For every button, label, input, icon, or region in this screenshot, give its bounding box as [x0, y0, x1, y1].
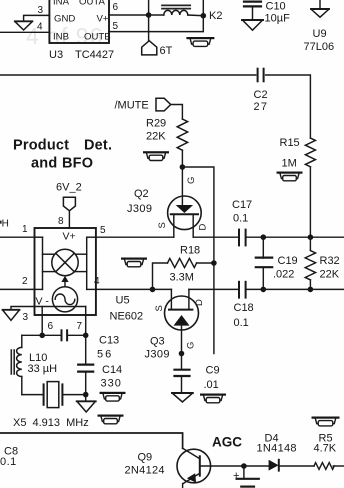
svg-text:8: 8: [58, 216, 64, 227]
svg-text:4: 4: [94, 276, 100, 287]
wire pin2 left edge: [0, 288, 35, 290]
speaker icon (below 22K): [143, 151, 169, 160]
wire Q9 base to right: [200, 465, 269, 467]
node C19 bottom: [261, 287, 267, 293]
svg-text:Q2: Q2: [134, 188, 149, 200]
svg-text:TC4427: TC4427: [75, 49, 114, 61]
node junction (K2 coil right): [201, 13, 207, 19]
node AGC cap: [241, 463, 247, 469]
svg-text:Q3: Q3: [150, 336, 165, 348]
svg-text:C2: C2: [254, 89, 268, 101]
svg-text:4: 4: [37, 22, 43, 33]
wire top rail: [0, 74, 256, 76]
wire pin6 stub: [41, 315, 43, 335]
svg-text:10µF: 10µF: [265, 13, 291, 25]
arrow oscillator to mixer: [61, 276, 68, 287]
svg-text:6: 6: [113, 2, 119, 13]
node junction (V+ / K2 coil left): [146, 12, 152, 18]
svg-text:1N4148: 1N4148: [257, 443, 297, 455]
svg-text:V+: V+: [63, 231, 76, 243]
svg-text:V -: V -: [36, 296, 50, 308]
node R18 right: [211, 260, 217, 266]
svg-text:5: 5: [113, 21, 119, 32]
resistor R18: [153, 258, 214, 289]
svg-text:OUTA: OUTA: [79, 0, 106, 8]
speaker icon (right of X5 label): [98, 415, 124, 424]
flag /MUTE: [156, 98, 171, 111]
svg-text:/MUTE: /MUTE: [115, 100, 149, 112]
svg-text:and: and: [31, 156, 57, 172]
svg-text:6T: 6T: [160, 45, 173, 57]
svg-text:S: S: [157, 222, 168, 228]
svg-text:56: 56: [97, 349, 113, 361]
svg-text:X5 4.913 MHz: X5 4.913 MHz: [13, 417, 89, 429]
svg-text:G: G: [186, 342, 197, 349]
node pin7: [83, 333, 89, 339]
svg-text:J309: J309: [145, 349, 170, 361]
wire pin3 GND: [24, 15, 50, 21]
wire pin5 OUTB: [109, 16, 203, 32]
wire pin6 V+: [109, 14, 149, 16]
svg-text:D: D: [198, 224, 209, 231]
node pin6: [39, 333, 45, 339]
node Q3 gate: [179, 351, 185, 357]
svg-text:J309: J309: [127, 203, 152, 215]
node R18 left: [150, 287, 156, 293]
wire bottom bus right: [67, 334, 86, 336]
mixer symbol: [52, 249, 78, 275]
svg-text:U5: U5: [116, 295, 130, 307]
svg-text:G: G: [186, 177, 197, 184]
svg-text:K2: K2: [209, 10, 222, 22]
IC U3 TC4427 box: [49, 0, 109, 43]
wire MUTE to R29: [171, 105, 183, 120]
ground (below C14): [77, 401, 96, 412]
internal bus pin5/pin4 (right): [75, 237, 96, 289]
svg-text:H: H: [2, 219, 9, 230]
wire R15 bottom to C17 node: [309, 167, 311, 237]
svg-text:U3: U3: [49, 49, 63, 61]
capacitor C9: [175, 354, 190, 393]
node C19 top: [261, 234, 267, 240]
capacitor C17: [239, 230, 246, 246]
wire bottom bus left: [22, 334, 62, 336]
wire gate bus jog right: [182, 167, 214, 354]
svg-text:C14: C14: [102, 364, 122, 376]
flag 6T: [142, 41, 157, 55]
svg-text:.01: .01: [204, 379, 219, 391]
svg-text:INA: INA: [53, 0, 70, 8]
wire C17 to right edge: [246, 236, 344, 238]
capacitor C2: [258, 69, 264, 82]
svg-text:27: 27: [254, 101, 269, 113]
svg-text:C19: C19: [278, 255, 298, 267]
wire pin4 INB to left edge: [0, 31, 49, 33]
svg-text:330: 330: [101, 378, 122, 390]
flag 6V_2: [63, 197, 75, 211]
wire pin7 stub: [85, 315, 87, 335]
svg-text:0.1: 0.1: [0, 456, 17, 468]
wire rail right of C2: [266, 75, 311, 138]
wire Q2 drain to C17: [193, 236, 239, 238]
speaker icon (right of C9): [200, 394, 226, 403]
transistor Q2 J309: [168, 196, 202, 237]
svg-text:0.1: 0.1: [234, 317, 249, 329]
wire L10 to X5: [22, 394, 44, 396]
wire NE602 pin4 to Q3 source: [96, 288, 171, 290]
ground (below C10): [242, 20, 263, 30]
node R29/Q2 gate: [180, 164, 186, 170]
capacitor C10: [244, 2, 261, 20]
svg-text:1: 1: [22, 224, 28, 235]
svg-text:C18: C18: [234, 302, 254, 314]
svg-text:R32: R32: [320, 255, 340, 267]
wire vertical to 6T: [148, 0, 150, 41]
svg-text:5: 5: [100, 225, 106, 236]
wire C18 to right edge: [246, 288, 344, 290]
svg-text:+: +: [233, 470, 239, 482]
svg-text:33 µH: 33 µH: [28, 363, 58, 375]
wire R29 bottom: [181, 150, 183, 167]
node R32 top: [308, 234, 314, 240]
oscillator symbol: [52, 287, 77, 312]
speaker icon (above R5): [312, 417, 340, 426]
speaker icon (top): [186, 37, 214, 46]
inductor L10: [11, 335, 21, 394]
svg-text:6: 6: [48, 321, 54, 332]
speaker icon (below R15): [277, 172, 303, 181]
relay coil K2: [149, 5, 204, 15]
wire to ground: [85, 395, 87, 401]
capacitor C14: [78, 335, 93, 394]
svg-text:R29: R29: [146, 118, 166, 130]
ground (NE602 pin3): [3, 310, 20, 321]
svg-text:77L06: 77L06: [304, 41, 335, 53]
svg-text:Det.: Det.: [84, 138, 112, 154]
svg-text:BFO: BFO: [62, 156, 93, 172]
svg-text:R18: R18: [180, 245, 200, 257]
wire pin8: [68, 211, 70, 228]
svg-text:22K: 22K: [146, 131, 166, 143]
svg-text:3: 3: [23, 312, 29, 323]
wire vertical above K2 right node: [202, 0, 204, 16]
resistor R5: [314, 463, 334, 470]
svg-text:C17: C17: [232, 199, 252, 211]
transistor Q3 J309: [165, 289, 199, 353]
speaker icon (left of Q2 source wire): [121, 258, 147, 267]
svg-text:2: 2: [22, 276, 28, 287]
node R32 bottom: [308, 287, 314, 293]
resistor R29: [177, 119, 187, 150]
svg-text:0.1: 0.1: [233, 213, 248, 225]
IC U5 NE602 box: [35, 228, 96, 315]
wire C8 line to Q9 collector: [0, 433, 183, 448]
svg-text:NE602: NE602: [110, 311, 144, 323]
svg-text:OUTB: OUTB: [84, 32, 111, 43]
svg-text:22K: 22K: [320, 269, 340, 281]
svg-text:Product: Product: [13, 138, 69, 154]
resistor R15: [305, 138, 315, 167]
speaker icon (right of C14): [100, 392, 126, 401]
svg-text:C13: C13: [99, 335, 119, 347]
svg-text:1M: 1M: [282, 158, 297, 170]
svg-text:.022: .022: [273, 269, 294, 281]
svg-text:S: S: [154, 305, 165, 311]
svg-text:4.7K: 4.7K: [314, 443, 337, 455]
capacitor C19: [256, 237, 272, 289]
wire NE602 pin5 to Q2 source: [96, 236, 174, 238]
svg-text:R15: R15: [280, 137, 300, 149]
resistor R32: [305, 237, 315, 289]
capacitor C13: [62, 330, 68, 340]
svg-text:C9: C9: [206, 365, 220, 377]
internal bus pin1/pin2 (left): [35, 237, 55, 289]
crystal X5: [44, 382, 86, 408]
svg-text:2N4124: 2N4124: [125, 465, 165, 477]
svg-text:GND: GND: [54, 14, 75, 25]
svg-text:6V_2: 6V_2: [56, 182, 82, 194]
svg-text:7: 7: [77, 321, 83, 332]
wire pin3 to ground: [11, 307, 35, 310]
svg-text:D: D: [194, 299, 205, 306]
ground (below C9): [172, 393, 193, 402]
transistor Q9 2N4124: [177, 448, 211, 488]
svg-text:V+: V+: [97, 14, 109, 25]
ground (U9 output): [311, 0, 329, 17]
ground (pin 3 of U3): [15, 21, 33, 30]
capacitor (electrolytic, below node): [237, 466, 259, 487]
svg-text:3: 3: [38, 5, 44, 16]
node X5/C14: [83, 392, 89, 398]
svg-text:Q9: Q9: [138, 452, 153, 464]
wire pin1 from left edge: [0, 236, 35, 238]
svg-text:INB: INB: [53, 32, 69, 43]
wire Q2 gate: [181, 167, 183, 205]
svg-text:C10: C10: [266, 1, 286, 13]
diode D4 1N4148: [269, 460, 314, 471]
svg-text:3.3M: 3.3M: [170, 272, 194, 284]
wire R5 to right edge: [333, 465, 344, 467]
wire Q3 drain to C18: [189, 288, 239, 290]
internal V- bus to pins 6,7: [35, 307, 86, 316]
svg-text:U9: U9: [313, 28, 327, 40]
svg-text:AGC: AGC: [212, 435, 242, 450]
capacitor C18: [239, 282, 246, 298]
